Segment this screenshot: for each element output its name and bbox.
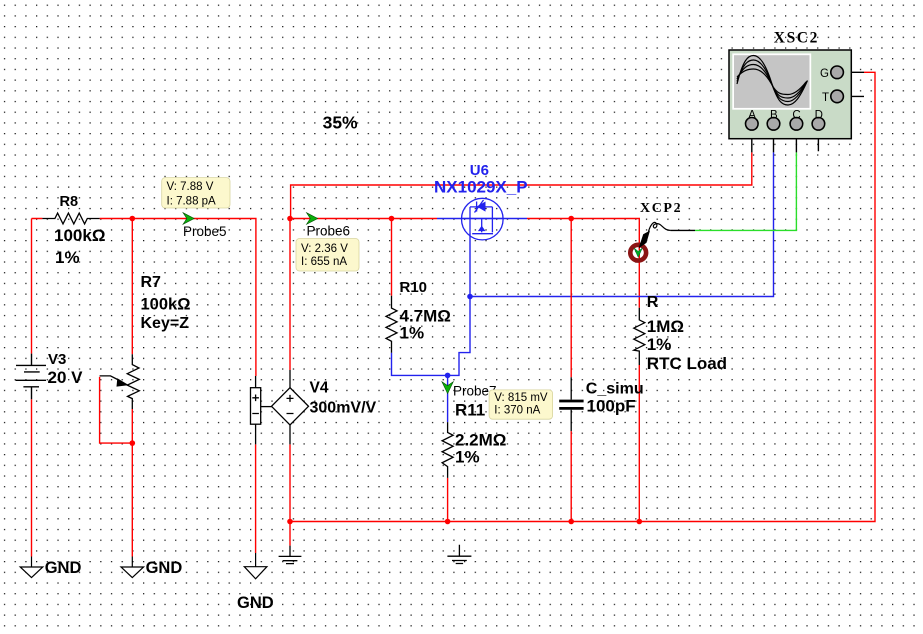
svg-text:I: 370 nA: I: 370 nA [494, 404, 540, 416]
junction dot bus V4 [287, 519, 293, 525]
wire: V4 branch vertical [256, 219, 290, 554]
svg-text:A: A [748, 110, 756, 122]
svg-text:XSC2: XSC2 [774, 30, 819, 47]
wire: scope C green net [695, 152, 796, 230]
probe5 value box [162, 178, 230, 208]
resistor R (RTC load) [634, 308, 645, 365]
XCP2 green arrow [634, 248, 643, 257]
svg-text:1MΩ: 1MΩ [647, 317, 684, 336]
oscilloscope terminal G [831, 66, 844, 79]
oscilloscope terminal B [767, 118, 780, 131]
battery V3 [16, 354, 47, 400]
wire: R10 bottom blue to probe7 node [392, 353, 448, 376]
svg-text:I: 655 nA: I: 655 nA [301, 256, 347, 268]
svg-text:R: R [647, 294, 659, 311]
svg-text:Probe5: Probe5 [183, 224, 227, 239]
probe7 value box [489, 390, 552, 419]
svg-text:35%: 35% [323, 112, 358, 132]
svg-text:C_simu: C_simu [586, 380, 644, 397]
wire: scope B net blue horizontal [470, 152, 774, 296]
resistor R8 [42, 213, 99, 224]
wire: main left horizontal [32, 219, 256, 377]
svg-text:C: C [792, 110, 800, 122]
svg-text:1%: 1% [647, 335, 672, 354]
MOSFET body diode [477, 202, 486, 212]
svg-text:R10: R10 [400, 279, 428, 296]
junction dot probe7 node [445, 373, 451, 379]
junction dot R10 top [389, 216, 395, 222]
svg-text:1%: 1% [400, 323, 425, 342]
svg-text:300mV/V: 300mV/V [310, 400, 377, 417]
wire: V3 branch left vertical [31, 219, 33, 557]
ground triangle 3 (V4 rect) [244, 553, 267, 579]
XCP2 cable squiggle [649, 222, 671, 231]
probe arrow Probe5 [183, 213, 194, 225]
svg-text:100kΩ: 100kΩ [54, 226, 105, 245]
resistor R11 [442, 422, 453, 478]
svg-text:RTC Load: RTC Load [647, 354, 727, 373]
svg-text:R11: R11 [455, 400, 485, 419]
svg-text:V: 815 mV: V: 815 mV [494, 392, 548, 404]
svg-text:V: 2.36 V: V: 2.36 V [301, 243, 348, 255]
wire: XCP2/R branch bottom red [638, 365, 640, 522]
junction dot middle top [287, 216, 293, 222]
XCP2 current probe ring [630, 245, 646, 261]
MOSFET U6 [462, 198, 504, 240]
R7 wiper arrowhead [117, 378, 130, 386]
wire: ground bus [290, 72, 875, 521]
svg-text:GND: GND [237, 594, 274, 612]
probe arrow Probe7 [442, 382, 453, 394]
wire: R11 branch red bottom [447, 478, 449, 522]
junction dot wiper [130, 440, 136, 446]
svg-text:GND: GND [45, 559, 82, 577]
svg-text:1%: 1% [455, 447, 480, 466]
potentiometer R7 [100, 354, 140, 409]
svg-text:XCP2: XCP2 [640, 201, 682, 216]
wire: main middle horizontal red parts [290, 219, 639, 308]
IEC ground floating middle [447, 545, 471, 564]
dependent source V4 control rectangle [251, 376, 273, 444]
svg-text:B: B [770, 110, 778, 122]
oscilloscope waveforms [737, 56, 808, 106]
svg-text:T: T [822, 92, 829, 104]
IEC ground under V4 diamond [279, 546, 302, 564]
junction dot bus R11 [445, 519, 451, 525]
svg-text:V4: V4 [310, 380, 329, 397]
junction dot C_simu top [568, 216, 574, 222]
wire: gate net blue with jog [448, 232, 470, 375]
oscilloscope screen [732, 53, 811, 109]
svg-text:I: 7.88 pA: I: 7.88 pA [167, 195, 217, 207]
wire: scope pin stubs black [752, 72, 864, 152]
svg-text:100pF: 100pF [587, 397, 636, 416]
probe6 value box [296, 239, 359, 272]
dependent source V4 diamond [272, 370, 309, 444]
svg-text:1%: 1% [55, 248, 80, 267]
oscilloscope XSC2 body [729, 50, 851, 139]
junction dot gate/B net [467, 294, 473, 300]
wire: R10 branch [391, 219, 393, 296]
svg-text:100kΩ: 100kΩ [141, 296, 191, 314]
wire: R7 branch vertical [131, 219, 133, 557]
wire: R11 branch blue top [447, 375, 449, 422]
svg-text:V3: V3 [48, 351, 66, 368]
svg-text:GND: GND [146, 559, 183, 577]
resistor R10 [386, 296, 397, 353]
junction dot R8/R7 [130, 216, 136, 222]
ground triangle 2 (R7) [121, 557, 144, 578]
svg-text:Probe6: Probe6 [307, 224, 351, 239]
svg-text:Key=Z: Key=Z [141, 315, 190, 332]
svg-text:NX1029X_P: NX1029X_P [434, 178, 528, 197]
oscilloscope terminal C [790, 118, 803, 131]
oscilloscope terminal D [812, 118, 825, 131]
oscilloscope terminal A [746, 118, 759, 131]
svg-text:D: D [815, 110, 823, 122]
probe arrow Probe6 [307, 213, 318, 225]
XCP2 clamp wedge [639, 231, 651, 249]
wire: XCP2 cable black straight [670, 229, 695, 231]
svg-text:V: 7.88 V: V: 7.88 V [167, 181, 214, 193]
junction dot bus C_simu [568, 519, 574, 525]
MOSFET substrate arrow [478, 226, 486, 232]
wire: MOSFET pin stubs blue [437, 218, 527, 220]
wire: C_simu branch [570, 219, 572, 522]
svg-text:G: G [820, 68, 829, 80]
oscilloscope terminal T [831, 90, 844, 103]
capacitor C_simu [559, 377, 583, 431]
ground triangle 1 (V3) [20, 557, 43, 578]
svg-text:20 V: 20 V [48, 368, 84, 387]
wire: top net A-scope to middle junction [291, 152, 752, 218]
junction dot bus R [637, 519, 643, 525]
svg-text:R7: R7 [141, 274, 162, 291]
svg-text:R8: R8 [60, 194, 79, 210]
wire: R7 wiper loop [100, 377, 133, 443]
